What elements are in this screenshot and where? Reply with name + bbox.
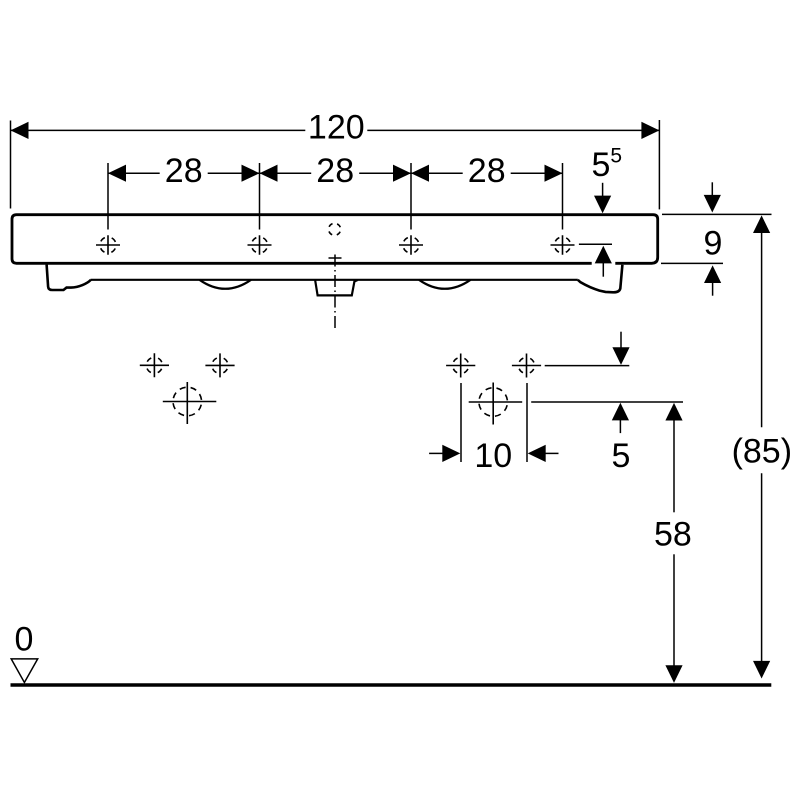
center line tick: [329, 257, 342, 259]
right cluster large crosshair: [469, 383, 523, 425]
dim 85: vertical line upper part: [761, 233, 763, 427]
arrowheads: [11, 122, 771, 683]
svg-text:5: 5: [612, 437, 631, 475]
dim 5.5: reference line through hole 4: [579, 243, 612, 245]
dim 5: up arrowhead: [612, 403, 629, 421]
dim 58: vertical line upper part: [673, 420, 675, 512]
svg-text:0: 0: [15, 621, 34, 659]
svg-text:28: 28: [165, 152, 203, 190]
left bowl bulge: [200, 280, 252, 289]
dim 9: bottom reference line: [661, 262, 723, 264]
dim 10: right arrow shaft: [545, 452, 558, 454]
dim 120: left extension line: [10, 121, 12, 209]
dim 5: lower arrow shaft: [619, 420, 621, 433]
tap hole crosshair 3: [399, 235, 423, 254]
overflow dashed circle: [329, 223, 341, 235]
svg-text:(85): (85): [732, 433, 792, 471]
dim 5: down arrowhead: [612, 347, 629, 365]
dim 28 seg2: right arrowhead: [393, 165, 411, 182]
dim 28: tick line at hole 3: [410, 163, 412, 230]
dim 9: down arrowhead: [704, 195, 721, 213]
svg-text:28: 28: [468, 152, 506, 190]
svg-text:9: 9: [704, 225, 723, 263]
dim 5.5: lower arrow shaft: [602, 263, 604, 277]
dim 28: tick line at hole 4: [562, 163, 564, 230]
left cluster small crosshair B: [205, 353, 234, 377]
dim 5: top reference line: [545, 365, 630, 367]
dim 5.5: upper arrow shaft: [602, 183, 604, 197]
dim 9: lower arrow shaft: [712, 283, 714, 296]
center line (dash-dot): [334, 255, 336, 332]
dim 5: bottom reference line: [531, 401, 683, 403]
dim 10: right extension line: [526, 383, 528, 462]
dim 120: right extension line: [658, 120, 660, 209]
dim 28 seg3: right arrowhead: [545, 165, 563, 182]
dim 85: top up arrowhead: [753, 215, 770, 233]
dim 5.5: down arrowhead: [594, 196, 611, 214]
dim 28 seg2: left arrowhead: [260, 165, 278, 182]
tap hole crosshair 1: [96, 235, 120, 254]
svg-text:10: 10: [474, 437, 512, 475]
dim 5: upper arrow shaft: [620, 332, 622, 349]
dim 10: left extension line: [460, 383, 462, 462]
tap hole crosshair 2: [248, 235, 272, 254]
floor line: [11, 683, 772, 687]
dim 28: dimension line segment 2: [260, 172, 412, 174]
tap hole crosshair 4: [551, 235, 575, 254]
dim 9: top reference line: [662, 213, 772, 215]
dim 85: vertical line lower part: [761, 473, 763, 661]
dim 58: vertical line lower part: [673, 554, 675, 665]
dim 58: top up arrowhead: [665, 403, 682, 421]
dim 28: tick line at hole 2: [259, 163, 261, 230]
dim 28 seg1: right arrowhead: [242, 165, 260, 182]
dim 10: left arrow shaft: [429, 452, 443, 454]
dim 28: dimension line segment 3: [411, 172, 563, 174]
dim 9: upper arrow shaft: [711, 182, 713, 195]
dim 28: dimension line segment 1: [108, 172, 260, 174]
dim 85: bottom down arrowhead: [753, 661, 770, 679]
dim 10: left-pointing arrowhead: [528, 445, 546, 462]
svg-text:28: 28: [316, 152, 354, 190]
right cluster small crosshair A: [446, 354, 475, 378]
dim 120: dimension line: [11, 129, 660, 131]
dim 28 seg1: left arrowhead: [108, 165, 126, 182]
dim 120: left arrowhead: [11, 122, 29, 139]
washbasin left foot/skirt: [47, 265, 91, 291]
datum triangle: [11, 659, 38, 683]
washbasin rim outline: [12, 215, 658, 264]
dim 5.5: up arrowhead: [595, 246, 612, 264]
right cluster small crosshair B: [512, 354, 541, 378]
dim 120: right arrowhead: [641, 122, 659, 139]
siphon box: [315, 280, 357, 295]
right bowl bulge: [419, 280, 471, 289]
left cluster small crosshair A: [140, 353, 169, 377]
dim 28: tick line at hole 1: [107, 163, 109, 230]
washbasin right foot/skirt: [578, 265, 623, 293]
left cluster large crosshair: [163, 382, 217, 424]
dim 58: bottom down arrowhead: [665, 665, 682, 683]
svg-text:58: 58: [654, 516, 692, 554]
dim 9: up arrowhead: [704, 265, 721, 283]
dim 10: right-pointing arrowhead: [442, 445, 460, 462]
dim 28 seg3: left arrowhead: [411, 165, 429, 182]
svg-text:120: 120: [308, 108, 365, 146]
washbasin underside line: [91, 279, 578, 281]
